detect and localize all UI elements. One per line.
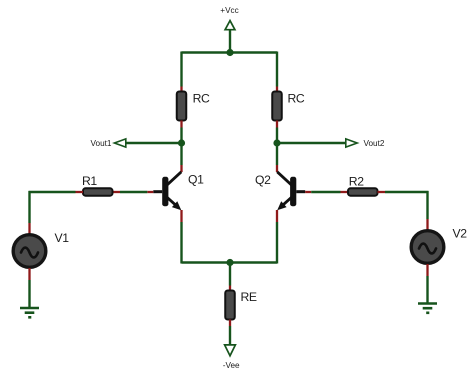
wire V1 to ground <box>28 280 30 308</box>
pin V2 plus <box>426 219 428 230</box>
node Vout1 junction <box>178 139 185 146</box>
terminal arrow Vout2 <box>346 139 357 147</box>
pin Q1 emitter <box>180 210 182 222</box>
wire Vout1 <box>126 142 182 144</box>
terminal arrow Vout1 <box>114 139 125 147</box>
svg-text:Vout1: Vout1 <box>91 139 112 148</box>
label RE <box>241 290 257 304</box>
svg-text:V1: V1 <box>55 231 70 245</box>
pin Q2 emitter <box>276 210 278 222</box>
resistor R2 <box>348 188 378 195</box>
svg-text:RC: RC <box>193 92 210 106</box>
label Q2 <box>255 173 271 187</box>
wire Q2 emitter down <box>276 222 278 264</box>
wire V1 to R1 <box>29 191 76 193</box>
wire RC1 to Vout1 node <box>180 128 182 144</box>
+Vcc label <box>220 6 238 15</box>
label RC (left) <box>193 92 210 106</box>
resistor RC (right) <box>272 92 282 121</box>
resistor RE <box>225 291 235 320</box>
wire Vout2 node to Q2 collector <box>276 143 278 165</box>
source V2 <box>411 231 444 264</box>
pin R2 left <box>341 191 349 193</box>
resistor R1 <box>83 188 113 195</box>
-Vee label <box>223 361 240 370</box>
pin R1 right <box>113 191 121 193</box>
pin Q2 collector <box>276 165 278 172</box>
junction top bus <box>226 49 233 56</box>
pin RC1 bottom <box>180 121 182 128</box>
svg-text:-Vee: -Vee <box>223 361 240 370</box>
wire Q2 base to R2 <box>311 191 340 193</box>
pin R2 right <box>378 191 386 193</box>
wire R2 to V2 corner <box>385 191 429 193</box>
wire Q1 emitter down <box>180 222 182 264</box>
svg-text:Vout2: Vout2 <box>364 139 385 148</box>
pin Q1 base <box>147 191 153 193</box>
label Vout2 <box>364 139 385 148</box>
-Vee power arrow <box>225 345 236 356</box>
svg-text:+Vcc: +Vcc <box>220 6 238 15</box>
label Q1 <box>188 172 204 186</box>
wire emitter bus to RE <box>229 263 231 286</box>
pin RC2 bottom <box>276 121 278 128</box>
pin RC1 top <box>180 87 182 93</box>
wire V2 to ground <box>426 276 428 304</box>
svg-text:RE: RE <box>241 290 257 304</box>
pin Q1 collector <box>180 165 182 172</box>
wire top bus <box>182 51 278 53</box>
pin V1 minus <box>28 268 30 280</box>
ground (V2) <box>418 304 437 313</box>
pin V2 minus <box>426 264 428 276</box>
wire Vout1 node to Q1 collector <box>180 143 182 165</box>
resistor RC (left) <box>177 92 187 121</box>
wire R1 to Q1 base <box>120 191 147 193</box>
pin V1 plus <box>28 223 30 234</box>
pin Q2 base <box>305 191 311 193</box>
label R1 <box>82 174 97 188</box>
pin RE bottom <box>229 320 231 327</box>
wire Vout2 <box>277 142 345 144</box>
pin RE top <box>229 286 231 292</box>
wire V1 branch corner down <box>28 191 30 223</box>
label V1 <box>55 231 70 245</box>
wire RC2 to Vout2 node <box>276 128 278 144</box>
wire RE to Vee arrow <box>229 326 231 345</box>
label R2 <box>349 174 364 188</box>
label V2 <box>453 227 468 241</box>
svg-text:R1: R1 <box>82 174 97 188</box>
pin RC2 top <box>276 87 278 93</box>
label Vout1 <box>91 139 112 148</box>
wire V2 branch corner down <box>426 191 428 219</box>
wire Vcc arrow to top bus <box>229 30 231 54</box>
node Vout2 junction <box>273 139 280 146</box>
transistor Q2 <box>277 172 305 210</box>
svg-text:RC: RC <box>288 92 305 106</box>
label RC (right) <box>288 92 305 106</box>
svg-text:R2: R2 <box>349 174 364 188</box>
transistor Q1 <box>153 172 181 210</box>
source V1 <box>13 235 46 268</box>
junction emitter bus <box>226 259 233 266</box>
+Vcc power arrow <box>225 21 235 30</box>
wire top bus to RC1 <box>180 52 182 87</box>
wire top bus to RC2 <box>276 52 278 87</box>
pin R1 left <box>76 191 84 193</box>
svg-text:Q2: Q2 <box>255 173 271 187</box>
svg-text:Q1: Q1 <box>188 172 204 186</box>
ground (V1) <box>20 308 39 317</box>
svg-text:V2: V2 <box>453 227 468 241</box>
wire emitter bus <box>182 261 278 263</box>
